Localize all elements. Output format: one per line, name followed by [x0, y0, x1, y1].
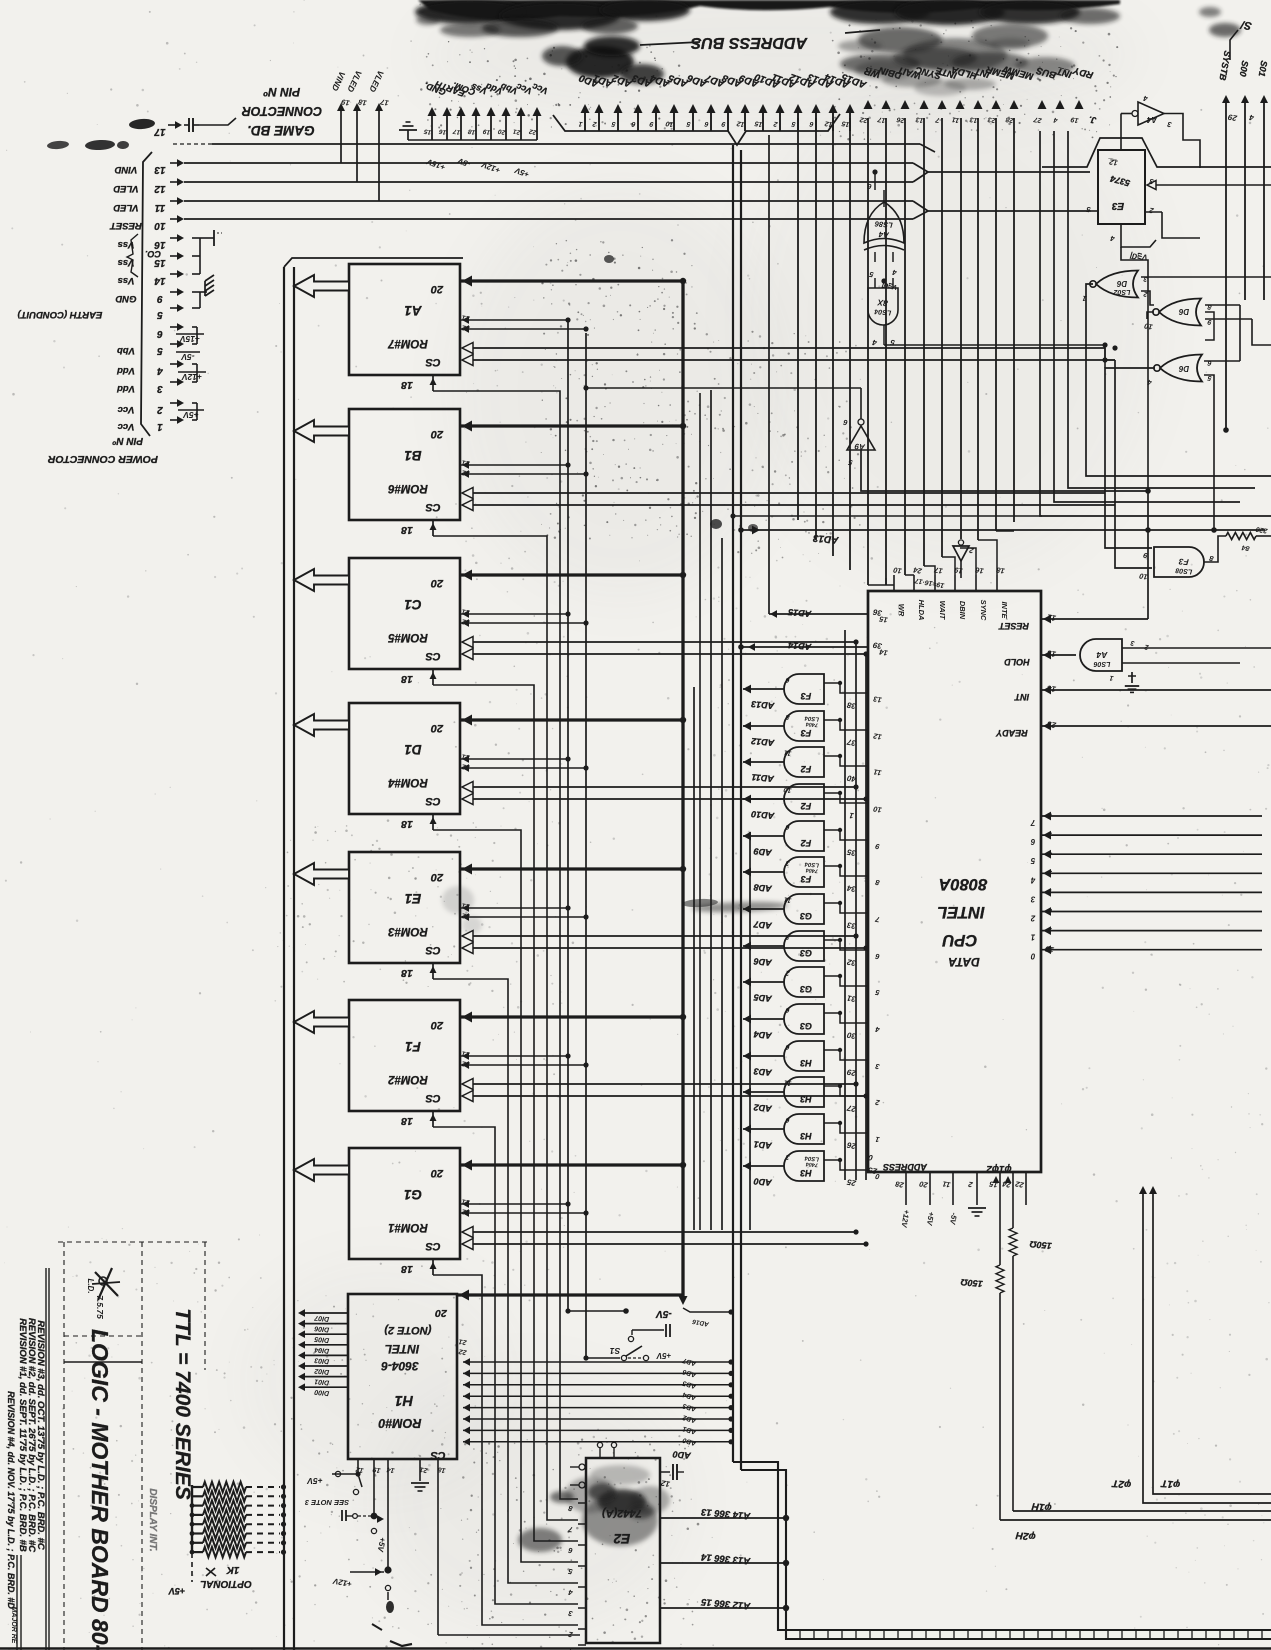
svg-text:11: 11: [154, 202, 165, 213]
CPU pin 24 HLDA: [913, 575, 915, 591]
svg-text:10: 10: [665, 119, 674, 127]
svg-text:EARTH (CONDUIT): EARTH (CONDUIT): [18, 309, 103, 320]
connector J1 bracket: [141, 152, 152, 436]
ground CPU pin 2: [968, 1207, 986, 1209]
svg-text:8: 8: [785, 933, 790, 941]
CPU pin 35: [824, 830, 868, 840]
address bus line AD13: [815, 112, 817, 131]
control line RDY: [1075, 100, 1084, 109]
resistor RN8 1K: [192, 1551, 203, 1553]
svg-text:CONNECTOR: CONNECTOR: [242, 104, 322, 118]
buffer gate F3 AD13: [784, 674, 824, 704]
svg-text:150Ω: 150Ω: [960, 1277, 983, 1289]
svg-text:READY: READY: [995, 728, 1028, 738]
svg-text:TTL = 7400 SERIES: TTL = 7400 SERIES: [171, 1308, 194, 1500]
wire HOLD inputs: [1122, 647, 1271, 649]
svg-text:1: 1: [578, 120, 583, 128]
CS chain vertical A: [855, 642, 857, 1180]
svg-text:12: 12: [824, 119, 833, 127]
ROM F1 pin 18 stub: [432, 1111, 434, 1127]
svg-text:18: 18: [437, 1465, 446, 1473]
svg-text:ROM#5: ROM#5: [388, 631, 428, 643]
svg-text:HOLD: HOLD: [1004, 657, 1030, 667]
svg-text:5: 5: [157, 309, 163, 320]
svg-text:16: 16: [154, 239, 166, 250]
svg-text:REVISION #4, dd. NOV. 17'75 by: REVISION #4, dd. NOV. 17'75 by L.D. ; P.…: [6, 1391, 16, 1609]
ROM E1 chip select wire from decoder: [433, 979, 578, 1583]
ROM G1 CS wire B: [462, 1239, 473, 1250]
svg-text:19: 19: [482, 127, 491, 135]
svg-text:29: 29: [1227, 112, 1239, 123]
junction blob lower: [384, 1566, 391, 1573]
svg-text:14: 14: [1046, 683, 1057, 694]
svg-text:A4: A4: [1096, 650, 1108, 660]
wire H1 address A4: [463, 1407, 731, 1409]
svg-text:2: 2: [967, 1180, 974, 1190]
pin22 chain vertical: [585, 333, 587, 1358]
CPU pin 23 READY: [1041, 725, 1271, 727]
svg-text:E1: E1: [405, 891, 422, 906]
svg-text:13: 13: [872, 694, 883, 704]
wire control comb: [995, 118, 997, 531]
svg-text:6: 6: [785, 1006, 790, 1014]
svg-text:6: 6: [785, 1043, 790, 1051]
nest step 4: [1040, 131, 1271, 516]
CPU bottom pin stubs: [905, 1172, 907, 1205]
net Vab: [1121, 238, 1156, 247]
svg-text:19: 19: [340, 97, 351, 107]
revision rule: [45, 1268, 47, 1650]
svg-text:2: 2: [785, 969, 791, 977]
label -5V: [176, 351, 200, 353]
wire control comb: [960, 118, 962, 539]
svg-text:PIN Nº: PIN Nº: [263, 85, 300, 99]
ROM F1 pin 20 supply wire: [460, 1015, 683, 1018]
svg-text:AD2: AD2: [682, 1413, 698, 1424]
CPU pin 38: [824, 683, 868, 693]
svg-text:6: 6: [785, 676, 790, 684]
svg-text:12: 12: [1046, 612, 1057, 623]
Vss rail mark: [213, 230, 215, 246]
ROM D1 ROM#4: [349, 703, 460, 814]
wire H1 data D6: [304, 1323, 348, 1325]
svg-text:3: 3: [1166, 120, 1172, 130]
svg-text:12: 12: [736, 119, 745, 127]
pin21 chain vertical: [567, 320, 569, 1311]
nested loop wires right: [1239, 305, 1241, 361]
spine top corner: [284, 258, 463, 267]
sheet border band bottom: [0, 1647, 1271, 1650]
svg-text:A9: A9: [854, 442, 867, 452]
wire video to E3 area: [928, 171, 1090, 173]
ROM A1 ROM#7: [349, 264, 460, 375]
cable ruler ticks: [799, 1630, 801, 1639]
resistor RN4 1K: [192, 1514, 203, 1516]
svg-text:AD0: AD0: [753, 1176, 773, 1188]
svg-text:18: 18: [401, 673, 413, 685]
svg-text:15: 15: [154, 257, 166, 268]
wire +5V tie: [192, 402, 197, 404]
svg-text:7404: 7404: [806, 720, 819, 727]
svg-text:D6: D6: [1178, 364, 1189, 373]
svg-text:+5V: +5V: [513, 165, 530, 179]
svg-text:DI02: DI02: [314, 1367, 329, 1375]
svg-text:23: 23: [1046, 719, 1058, 730]
svg-text:SEE NOTE 3: SEE NOTE 3: [304, 1498, 349, 1507]
svg-text:18: 18: [467, 127, 476, 135]
address bus line AD3: [637, 112, 639, 131]
svg-text:INTEL: INTEL: [937, 903, 985, 921]
wire gate feed vertical: [874, 172, 876, 190]
wire pin13-12 merge to bus: [341, 162, 913, 164]
wire H1 address A3: [463, 1395, 731, 1397]
svg-text:15: 15: [841, 119, 850, 127]
CPU pin 25: [824, 1160, 868, 1170]
svg-text:15: 15: [754, 119, 763, 127]
wire E3 down to reset node: [1121, 247, 1148, 491]
svg-text:5: 5: [874, 988, 880, 998]
NOR gate D6 c: [1160, 355, 1202, 382]
ROM H1 bottom pin stubs: [357, 1459, 359, 1474]
wire AD5 out: [743, 981, 784, 983]
CPU pin 32: [824, 940, 868, 950]
address bus line AD15: [849, 112, 851, 131]
svg-text:OPTIONAL: OPTIONAL: [200, 1578, 252, 1589]
svg-text:20: 20: [430, 1019, 444, 1031]
svg-text:20: 20: [430, 871, 444, 883]
svg-text:B1: B1: [404, 448, 421, 463]
svg-text:6: 6: [785, 1116, 790, 1124]
wire F3 output: [1204, 536, 1226, 562]
wire pin18 video dashed: [173, 143, 212, 145]
CPU pin 18 INTE: [996, 575, 998, 591]
svg-text:φ1T: φ1T: [1160, 1477, 1180, 1490]
svg-text:84: 84: [1241, 543, 1250, 551]
nand gate 8X LS04: [868, 288, 898, 325]
CPU pin 19 DBIN: [954, 575, 956, 591]
wire AD11 out: [743, 761, 784, 763]
ROM E1 pin 18 stub: [432, 963, 434, 979]
svg-text:S1: S1: [610, 1346, 621, 1356]
svg-text:+5V: +5V: [925, 1211, 936, 1227]
svg-text:1: 1: [848, 811, 854, 821]
CPU pin 17 WAIT: [934, 575, 936, 591]
svg-text:AD13: AD13: [751, 699, 776, 711]
wire H1 data D4: [304, 1344, 348, 1346]
ROM E1 ROM#3: [349, 852, 460, 963]
ROM B1 CS wire A: [462, 488, 473, 499]
wire pin11 VLED: [184, 200, 379, 202]
svg-text:19: 19: [372, 1465, 381, 1473]
net S01: [1263, 100, 1265, 300]
wire +15V tie: [192, 326, 197, 328]
svg-text:Vss: Vss: [118, 275, 135, 286]
wire data D2: [1041, 911, 1262, 913]
svg-text:2: 2: [874, 1098, 881, 1108]
flip-flop E3 LS74: [1098, 150, 1145, 224]
ROM F1 data bus arrow: [294, 1011, 349, 1033]
svg-text:37: 37: [846, 737, 857, 748]
svg-text:CS: CS: [425, 1092, 441, 1104]
nand 8X connections: [874, 278, 876, 288]
svg-text:VLED: VLED: [345, 69, 364, 94]
svg-text:13: 13: [154, 164, 166, 175]
ROM F1 CS wire B: [462, 1091, 473, 1102]
svg-text:20: 20: [430, 428, 444, 440]
riser VLED 18: [356, 108, 358, 182]
svg-text:18: 18: [401, 967, 413, 979]
svg-text:AD0: AD0: [672, 1449, 692, 1461]
wire H1 data D7: [304, 1312, 348, 1314]
svg-text:W̲R̲: W̲R̲: [897, 604, 906, 617]
svg-text:15: 15: [423, 127, 432, 135]
wire AD1 out: [743, 1128, 784, 1130]
svg-text:ROM#6: ROM#6: [388, 482, 428, 494]
svg-text:25: 25: [846, 1177, 858, 1188]
svg-text:ROM#7: ROM#7: [388, 337, 428, 349]
E2 output pin 1: [578, 1644, 586, 1646]
CPU pin 40: [824, 756, 868, 766]
star mark: [95, 1272, 118, 1296]
svg-text:LS04: LS04: [874, 307, 891, 315]
ROM D1 CS wire A: [462, 782, 473, 793]
svg-text:9: 9: [874, 842, 880, 852]
svg-text:CPU: CPU: [942, 931, 978, 949]
svg-text:POWER CONNECTOR: POWER CONNECTOR: [48, 453, 158, 465]
wire H1 data D2: [304, 1365, 348, 1367]
svg-text:10: 10: [1044, 944, 1055, 955]
wire aux vertical 700: [699, 393, 701, 1230]
address bus label underline: [640, 42, 700, 45]
wire +12V tie: [192, 363, 197, 365]
ROM A1 CS wire A: [462, 343, 473, 354]
control line DBIN: [882, 100, 891, 109]
CPU pin 14 INT: [1041, 689, 1271, 691]
svg-text:18: 18: [401, 524, 413, 536]
svg-text:+12V: +12V: [181, 372, 202, 382]
svg-text:6: 6: [157, 328, 163, 339]
svg-text:150Ω: 150Ω: [1029, 1239, 1052, 1251]
svg-text:CS: CS: [425, 1240, 441, 1252]
E2 output pin 6: [578, 1544, 586, 1546]
CPU pin 27: [824, 1086, 868, 1096]
wire H1 address A5: [463, 1418, 731, 1420]
svg-text:AD16: AD16: [692, 1318, 711, 1328]
svg-text:1: 1: [157, 421, 163, 432]
svg-text:DI06: DI06: [314, 1324, 329, 1332]
ROM F1 ROM#2: [349, 1000, 460, 1111]
video out scribble: [129, 118, 156, 130]
svg-text:E2: E2: [613, 1531, 630, 1546]
resistor R2 150ohm: [999, 1215, 1001, 1265]
ROM A1 CS wire B: [462, 355, 473, 366]
svg-text:AD5: AD5: [682, 1379, 698, 1390]
address bus line AD0: [584, 112, 586, 131]
riser VIND: [340, 108, 342, 163]
svg-text:AD9: AD9: [753, 846, 773, 858]
resistor RN2 1K: [192, 1495, 203, 1497]
svg-text:6: 6: [1207, 359, 1212, 367]
svg-text:ADDRESS: ADDRESS: [883, 1162, 928, 1172]
svg-text:F1: F1: [405, 1039, 421, 1054]
ROM C1 CS wire B: [462, 649, 473, 660]
wire AD12 out: [743, 725, 784, 727]
svg-text:φ2H: φ2H: [1015, 1529, 1036, 1542]
E2 output pin 4: [578, 1586, 586, 1588]
address bus line AD4: [655, 112, 657, 131]
address bus line AD2: [617, 112, 619, 131]
svg-text:6: 6: [874, 952, 880, 962]
x scribble: [206, 1568, 216, 1576]
ROM G1 ROM#1: [349, 1148, 460, 1259]
resistor bank dashed drop: [191, 1553, 193, 1582]
resistor RN5 1K: [192, 1523, 203, 1525]
wire bus row 516: [733, 515, 1042, 517]
svg-text:5: 5: [157, 345, 163, 356]
ROM C1 chip select wire from decoder: [433, 685, 578, 1541]
svg-text:9: 9: [649, 120, 654, 128]
address bus line AD14: [832, 112, 834, 131]
svg-text:AD6: AD6: [752, 956, 773, 968]
address bus line AD8: [727, 112, 729, 131]
svg-text:G1: G1: [404, 1187, 422, 1202]
svg-text:INTEL: INTEL: [385, 1342, 420, 1356]
E3 pin 3 clock: [1147, 181, 1156, 190]
wire pin12 VLED: [184, 181, 357, 183]
wire H1 address A0: [463, 1361, 731, 1363]
buffer gate G3 AD7: [784, 894, 824, 924]
svg-text:Vbb: Vbb: [117, 345, 135, 356]
capacitor C4: [665, 1324, 667, 1337]
svg-text:5: 5: [1030, 856, 1035, 865]
svg-text:4: 4: [1248, 113, 1255, 123]
svg-text:28: 28: [894, 1179, 906, 1190]
svg-text:ADDRESS BUS: ADDRESS BUS: [690, 34, 808, 51]
cap polarized mark: [386, 1601, 394, 1613]
svg-text:18: 18: [357, 97, 368, 107]
svg-text:CS: CS: [425, 356, 441, 368]
svg-text:AD3: AD3: [682, 1402, 698, 1413]
svg-text:0: 0: [1030, 952, 1035, 961]
earth symbol (conduit): [205, 275, 214, 281]
wire AD6 out: [743, 945, 784, 947]
svg-text:φ1H: φ1H: [1031, 1500, 1052, 1513]
svg-text:AD6: AD6: [682, 1368, 698, 1379]
wire data D4: [1041, 872, 1262, 874]
svg-text:33: 33: [846, 920, 857, 931]
svg-text:8: 8: [874, 878, 880, 888]
ground under H1 pin: [411, 1482, 429, 1484]
ROM D1 pin 20 supply wire: [460, 718, 683, 721]
ROM B1 pin 20 supply wire: [460, 424, 683, 427]
svg-text:Vss: Vss: [118, 239, 135, 250]
svg-text:AD5: AD5: [752, 992, 773, 1004]
svg-text:18: 18: [401, 1115, 413, 1127]
E3 pin 5: [1091, 210, 1098, 212]
svg-text:1K: 1K: [226, 1564, 240, 1575]
svg-text:F2: F2: [801, 801, 812, 811]
wire H1 data D0: [304, 1386, 348, 1388]
ROM C1 pin 18 stub: [432, 669, 434, 685]
svg-text:7404: 7404: [806, 1160, 819, 1167]
ground symbol top: [407, 130, 409, 140]
wire control comb: [867, 118, 869, 585]
svg-text:3: 3: [1130, 639, 1135, 647]
wire H1 pin to E2: [438, 1634, 580, 1636]
svg-text:AD14: AD14: [788, 640, 813, 652]
thick supply vertical: [681, 281, 684, 1297]
net -5V: [568, 1310, 626, 1312]
wire D6a output loop: [1086, 284, 1271, 476]
CPU pin 13 HOLD: [1041, 654, 1076, 656]
svg-text:H3: H3: [800, 1058, 812, 1068]
wire AD3 out: [743, 1055, 784, 1057]
wire control comb: [904, 118, 906, 575]
CPU pin 30: [824, 1013, 868, 1023]
buffer gate H3 AD2: [784, 1077, 824, 1107]
bus trapezoid to E3: [1042, 138, 1271, 167]
svg-text:-5V: -5V: [456, 156, 471, 169]
svg-text:SYNC: SYNC: [979, 600, 988, 621]
control line WAIT: [901, 100, 910, 109]
svg-text:VIND: VIND: [115, 164, 138, 175]
svg-text:F2: F2: [801, 764, 812, 774]
ROM C1 pin 20 supply wire: [460, 573, 683, 576]
ROM D1 pin 18 stub: [432, 814, 434, 830]
decoder E2 7442: [586, 1458, 660, 1643]
power pin Vdd: [490, 115, 492, 140]
riser VLED 17: [378, 108, 380, 201]
ROM G1 pin 18 stub: [432, 1259, 434, 1275]
wire D6a input top: [1141, 276, 1271, 278]
svg-text:S01: S01: [1257, 60, 1270, 78]
CPU U1 INTEL 8080A: [868, 591, 1041, 1172]
svg-text:F3: F3: [801, 728, 812, 738]
svg-text:12: 12: [154, 183, 166, 194]
CPU pin 34: [824, 866, 868, 876]
ROM E1 data bus arrow: [294, 863, 349, 885]
wire AD10 out: [743, 798, 784, 800]
resistor RN6 1K: [192, 1532, 203, 1534]
wire data D0: [1041, 949, 1262, 951]
svg-text:HLDA: HLDA: [917, 600, 926, 621]
svg-text:AD13: AD13: [812, 532, 840, 545]
ROM C1 CS wire A: [462, 637, 473, 648]
ROM B1 pin 18 stub: [432, 520, 434, 536]
inverter A4 top: [1138, 102, 1164, 125]
svg-text:MAJOR RE: MAJOR RE: [10, 1607, 17, 1644]
svg-text:38: 38: [846, 700, 857, 711]
wire control comb: [885, 118, 887, 585]
gate A4 LS06 HOLD driver: [1080, 639, 1122, 671]
resistor R3 220: [1226, 533, 1256, 540]
wire phi1T: [1153, 1190, 1271, 1494]
svg-text:D1: D1: [404, 742, 421, 757]
address bus line AD1: [598, 112, 600, 131]
wire phi2T: [1143, 1190, 1271, 1503]
CPU pin 10 W&#818;R&#818;: [893, 575, 895, 591]
svg-text:13: 13: [915, 115, 924, 123]
power pin COM.: [460, 115, 462, 140]
wire inverter to E3: [1121, 113, 1132, 115]
wire pin11 long: [379, 200, 913, 202]
svg-text:AD15: AD15: [787, 607, 813, 619]
CPU pin 31: [824, 976, 868, 986]
svg-text:18: 18: [401, 1263, 413, 1275]
svg-text:3: 3: [157, 383, 163, 394]
ROM A1 pin 20 supply wire: [460, 279, 683, 282]
svg-text:13: 13: [1046, 648, 1057, 659]
